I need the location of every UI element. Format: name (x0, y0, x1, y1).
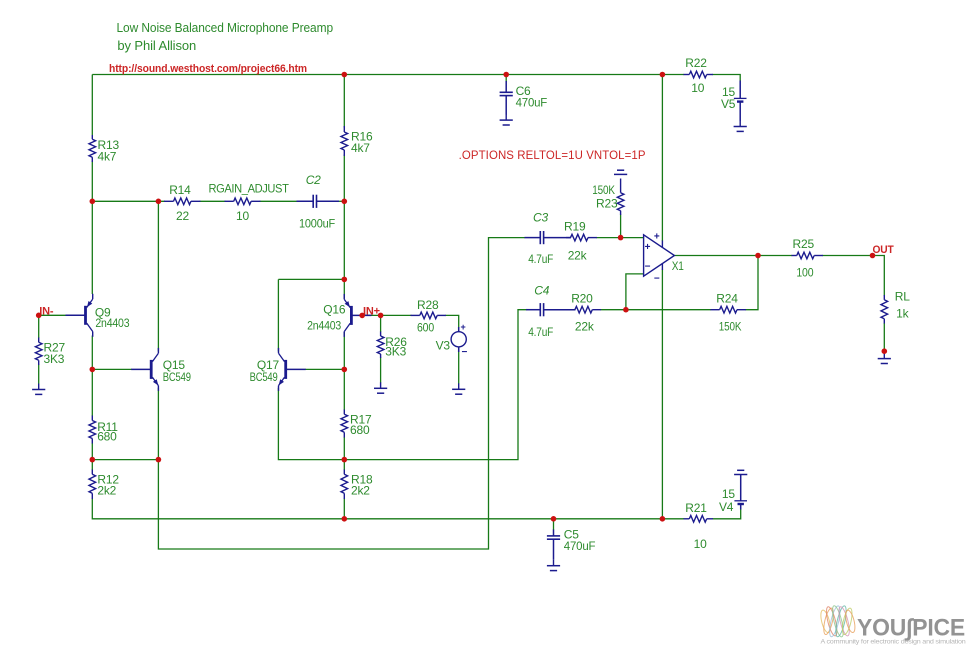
junction R11/R12 (90, 457, 96, 463)
resistor R18 (341, 470, 348, 500)
wire RL to ground (883, 323, 885, 353)
wire R20 to junction to R24 (601, 309, 712, 311)
battery V4 (734, 474, 747, 509)
resistor R20 (566, 306, 601, 313)
junction Q9 collector/Q15 base (90, 367, 96, 373)
wire R16 to C2 node to Q16 emitter (343, 155, 345, 299)
wire Q17 base to rail node (305, 368, 344, 370)
svg-text:http://sound.westhost.com/proj: http://sound.westhost.com/project66.htm (109, 63, 307, 75)
resistor R26 (377, 332, 384, 359)
junction R18/bottom rail (342, 516, 348, 522)
wire top positive rail (92, 74, 684, 76)
wire left rail upper (to R13) (91, 75, 93, 136)
wire IN- to R27 (38, 315, 40, 338)
resistor R16 (341, 126, 348, 156)
resistor R27 (35, 338, 42, 366)
wire -in riser and entry (626, 274, 644, 310)
svg-text:BC549: BC549 (250, 372, 278, 384)
svg-text:680: 680 (350, 423, 370, 437)
svg-text:150K: 150K (719, 320, 742, 334)
resistor R11 (89, 416, 96, 444)
logo youspice icon (819, 605, 857, 638)
capacitor C6 (500, 81, 513, 115)
svg-text:470uF: 470uF (564, 539, 596, 553)
resistor R14 (164, 198, 201, 205)
resistor R17 (341, 410, 348, 438)
resistor R12 (89, 470, 96, 500)
op-amp X1 (644, 232, 675, 285)
svg-text:2n4403: 2n4403 (307, 321, 341, 333)
svg-text:V3: V3 (436, 339, 451, 353)
wire C2 to rail node (338, 200, 344, 202)
svg-text:4k7: 4k7 (98, 150, 117, 164)
svg-text:15: 15 (722, 487, 735, 501)
wire Q15 base from Q9 collector node (92, 368, 132, 370)
svg-text:4k7: 4k7 (351, 141, 370, 155)
svg-text:Q17: Q17 (257, 358, 280, 372)
junction Q16 base IN+ (359, 313, 365, 319)
junction R13/R14 (90, 199, 96, 205)
wire op-amp V+ riser (661, 75, 663, 242)
svg-text:R28: R28 (417, 298, 439, 312)
svg-text:470uF: 470uF (516, 96, 548, 110)
wire RGAIN_ADJUST to C2 (260, 200, 298, 202)
junction R17/R18 (342, 457, 348, 463)
wire R14 to RGAIN_ADJUST (200, 200, 226, 202)
wire Q9 collector down to R11 (91, 336, 93, 417)
capacitor C3 (525, 231, 572, 244)
svg-text:4.7uF: 4.7uF (528, 325, 553, 339)
svg-text:4.7uF: 4.7uF (528, 252, 553, 266)
svg-text:V5: V5 (721, 97, 736, 111)
junction output/feedback (755, 253, 761, 259)
junction node OUT (870, 253, 876, 259)
transistor Q17 (279, 348, 306, 391)
wire R24 to feedback riser (746, 256, 759, 310)
junction rail/R16 (342, 72, 348, 78)
svg-text:OUT: OUT (873, 244, 894, 256)
wire C5 tap (553, 519, 555, 530)
wire Q15 emitter down to C3 riser (158, 238, 525, 549)
wire R26 to ground (380, 358, 382, 383)
junction IN+/R26/R28 (378, 313, 384, 319)
wire Q9 base from IN- (39, 314, 66, 316)
svg-text:10: 10 (236, 209, 249, 223)
power flag above V4 (734, 470, 747, 474)
wire R25 to OUT to RL corner (823, 256, 885, 296)
wire V3 to ground (458, 348, 460, 384)
battery V5 (734, 81, 747, 121)
svg-text:.OPTIONS RELTOL=1U VNTOL=1P: .OPTIONS RELTOL=1U VNTOL=1P (459, 148, 646, 162)
capacitor C4 (526, 303, 576, 316)
wire R23 branch (620, 215, 622, 238)
junction C5/bottom rail (551, 516, 557, 522)
svg-text:R21: R21 (685, 501, 707, 515)
ground for RL (878, 353, 891, 364)
svg-text:R22: R22 (685, 56, 707, 70)
svg-text:22k: 22k (568, 249, 588, 263)
svg-text:R23: R23 (596, 197, 618, 211)
junction rail/C6 (503, 72, 509, 78)
svg-text:Q16: Q16 (323, 303, 346, 317)
svg-text:by Phil Allison: by Phil Allison (117, 38, 196, 53)
voltage source V3 (451, 322, 467, 358)
resistor R25 (792, 252, 824, 259)
svg-text:R19: R19 (564, 220, 586, 234)
wire C3 row to op-amp +in (597, 237, 644, 239)
ground for C6 (500, 114, 513, 125)
svg-text:2n4403: 2n4403 (95, 318, 129, 330)
svg-text:10: 10 (691, 81, 704, 95)
svg-text:1k: 1k (896, 307, 909, 321)
svg-text:150K: 150K (592, 183, 615, 197)
junction Q15 emitter rail (156, 457, 162, 463)
junction R14/Q15 collector (156, 199, 162, 205)
wire R27 to ground (38, 365, 40, 384)
transistor Q9 (66, 294, 93, 337)
transistor Q16 (344, 294, 371, 337)
ground for R27 (32, 384, 45, 395)
wire Q16/Q17 upper link (278, 278, 344, 280)
junction V- riser/bottom rail (660, 516, 666, 522)
svg-text:YOU∫PICE: YOU∫PICE (857, 615, 965, 642)
svg-text:C4: C4 (534, 284, 549, 298)
ground for V3 (452, 383, 465, 394)
wire R18 to bottom rail (343, 499, 345, 519)
resistor R24 (711, 306, 747, 313)
wire R17 to R18 node (343, 437, 345, 470)
resistor R19 (566, 234, 597, 241)
svg-text:2k2: 2k2 (351, 484, 370, 498)
wire R12 to bottom rail (92, 499, 684, 519)
junction R20/R24/-in (623, 307, 629, 313)
wire Q16 collector to Q17 base node to R17 (343, 332, 345, 410)
transistor Q15 (131, 348, 158, 391)
wire R11 to R12 (91, 443, 93, 470)
svg-text:22: 22 (176, 209, 189, 223)
wire IN+ node to R26 (380, 315, 382, 332)
wire Q17 collector riser (277, 279, 279, 351)
svg-text:1000uF: 1000uF (299, 217, 335, 231)
svg-text:A community for electronic des: A community for electronic design and si… (821, 639, 966, 646)
svg-text:R14: R14 (169, 183, 191, 197)
wire op-amp output row (674, 255, 792, 257)
power flag above R23 (614, 170, 627, 174)
junction rail/V+ riser (660, 72, 666, 78)
wire R28 to V3 (446, 315, 459, 327)
svg-text:IN+: IN+ (363, 305, 380, 317)
junction C2/R16 (342, 199, 348, 205)
svg-text:22k: 22k (575, 320, 595, 334)
svg-text:+: + (645, 242, 651, 253)
wire R22 to V5 corner (713, 75, 741, 82)
ground for C5 (547, 560, 560, 571)
svg-text:2k2: 2k2 (97, 484, 116, 498)
resistor RL (881, 295, 888, 324)
svg-text:BC549: BC549 (163, 372, 191, 384)
svg-text:RGAIN_ADJUST: RGAIN_ADJUST (209, 183, 289, 195)
svg-text:−: − (462, 347, 468, 358)
wire R21 to V4 corner (713, 509, 741, 519)
ground for R26 (374, 382, 387, 393)
svg-text:R20: R20 (571, 292, 593, 306)
capacitor C2 (297, 195, 340, 208)
resistor R21 (684, 516, 714, 523)
wire R11/R12 node to Q15 emitter rail (92, 459, 158, 461)
wire R14 row left (92, 200, 165, 202)
svg-text:100: 100 (796, 266, 813, 280)
svg-text:V4: V4 (719, 500, 734, 514)
capacitor C5 (547, 530, 560, 560)
junction R19/R23/+in (618, 235, 624, 241)
potentiometer RGAIN_ADJUST (225, 198, 261, 205)
junction Q17 base/R17 (342, 367, 348, 373)
svg-text:−: − (645, 261, 651, 272)
junction Q16 emitter/Q17 collector (342, 277, 348, 283)
svg-text:X1: X1 (672, 259, 684, 273)
wire rail x344 top to R16 (343, 75, 345, 128)
svg-text:3K3: 3K3 (385, 345, 406, 359)
svg-text:Q15: Q15 (163, 358, 186, 372)
wire left rail R13 to R14 row to Q9 (91, 162, 93, 295)
resistor R28 (411, 312, 447, 319)
svg-text:3K3: 3K3 (44, 352, 65, 366)
svg-text:R25: R25 (793, 237, 815, 251)
svg-text:C2: C2 (306, 173, 321, 187)
wire op-amp V- riser (661, 270, 663, 519)
svg-text:600: 600 (417, 321, 434, 335)
resistor R13 (89, 135, 96, 162)
wire Q17 emitter down right to C4 riser (278, 310, 526, 460)
junction node IN- (36, 313, 42, 319)
svg-text:+: + (654, 232, 660, 243)
resistor R23 (617, 179, 624, 216)
wire Q16 base to IN+ and R28 (365, 314, 412, 316)
svg-text:−: − (654, 274, 660, 285)
ground for V5 (734, 121, 747, 132)
wire Q15 collector rail (157, 201, 159, 351)
svg-text:10: 10 (694, 537, 707, 551)
svg-text:Low Noise Balanced Microphone: Low Noise Balanced Microphone Preamp (117, 20, 334, 35)
svg-text:680: 680 (97, 430, 117, 444)
svg-text:R24: R24 (716, 292, 738, 306)
resistor R22 (684, 71, 714, 78)
svg-text:C3: C3 (533, 211, 548, 225)
svg-text:+: + (461, 322, 466, 332)
svg-text:RL: RL (895, 290, 910, 304)
junction RL/ground (882, 348, 888, 354)
wire C6 tap (505, 75, 507, 83)
